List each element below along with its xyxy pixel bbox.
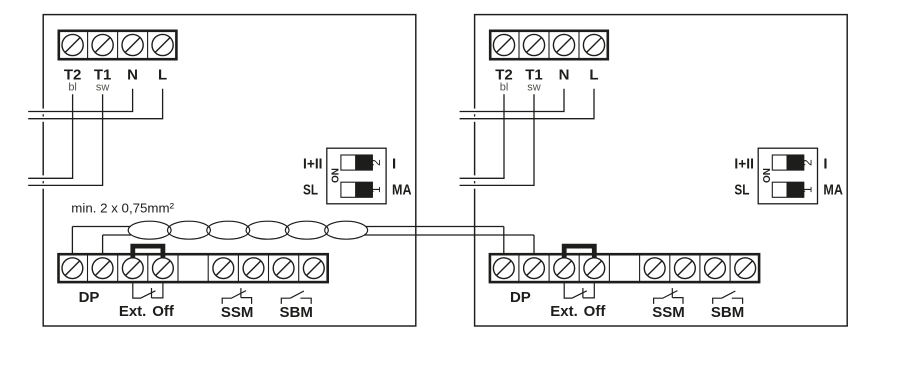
wire twisted pair to module2 DP-2	[364, 234, 534, 236]
twisted pair cable (6 twists)	[128, 221, 368, 239]
pump module 2 (slave, right enclosure)	[460, 15, 848, 326]
svg-text:min. 2 x 0,75mm²: min. 2 x 0,75mm²	[71, 201, 174, 216]
wire DP-1 module1 to twisted pair	[72, 226, 130, 228]
wire twisted pair to module2 DP-1	[366, 226, 504, 228]
pump module 1 (master, left enclosure)	[28, 15, 416, 326]
wire DP-2 module1 to twisted pair	[103, 234, 131, 236]
